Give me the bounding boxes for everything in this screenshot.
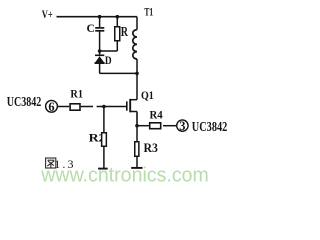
- resistor R3: [135, 126, 139, 168]
- pin 3 circle: [177, 120, 188, 131]
- resistor R (clamp): [115, 17, 120, 51]
- resistor R4: [150, 123, 161, 129]
- svg-text:R4: R4: [150, 108, 163, 122]
- wire gate segment: [97, 106, 127, 108]
- svg-text:UC3842: UC3842: [192, 120, 228, 135]
- wire clamp return: [100, 72, 137, 74]
- ground right: [131, 167, 142, 169]
- svg-text:D: D: [105, 54, 112, 67]
- svg-text:6: 6: [48, 100, 54, 114]
- capacitor C: [95, 17, 104, 51]
- ground left: [98, 168, 108, 170]
- figure caption 图 glyph: [46, 158, 56, 168]
- wire clamp bracket: [100, 50, 118, 52]
- transistor Q1 (MOSFET): [127, 99, 137, 126]
- diode D: [95, 51, 105, 73]
- svg-text:UC3842: UC3842: [7, 95, 42, 110]
- node junction C-D-R: [98, 49, 102, 53]
- node junction rail-R: [116, 15, 120, 19]
- svg-text:www.cntronics.com: www.cntronics.com: [40, 163, 208, 186]
- node junction rail-C: [98, 15, 102, 19]
- node junction gate-R2: [102, 105, 106, 109]
- node junction source-R3-R4: [135, 124, 139, 128]
- wire R1 to gate: [81, 106, 93, 108]
- svg-text:R3: R3: [144, 141, 158, 155]
- svg-text:V+: V+: [42, 9, 53, 21]
- svg-text:Q1: Q1: [141, 90, 154, 102]
- pin 6 circle: [46, 100, 58, 112]
- node junction clamp-drain: [135, 72, 139, 76]
- svg-text:R1: R1: [70, 87, 83, 101]
- resistor R1: [70, 104, 80, 110]
- wire R4 to pin3: [163, 125, 176, 127]
- svg-text:R: R: [121, 23, 129, 39]
- svg-text:C: C: [87, 23, 95, 35]
- svg-text:T1: T1: [144, 7, 153, 19]
- svg-text:3: 3: [179, 119, 185, 133]
- wire pin6 to R1: [58, 106, 70, 108]
- wire source node to R4: [137, 125, 149, 127]
- resistor R2: [102, 107, 107, 169]
- wire V+ top rail: [57, 16, 138, 18]
- transformer T1 winding: [133, 17, 137, 100]
